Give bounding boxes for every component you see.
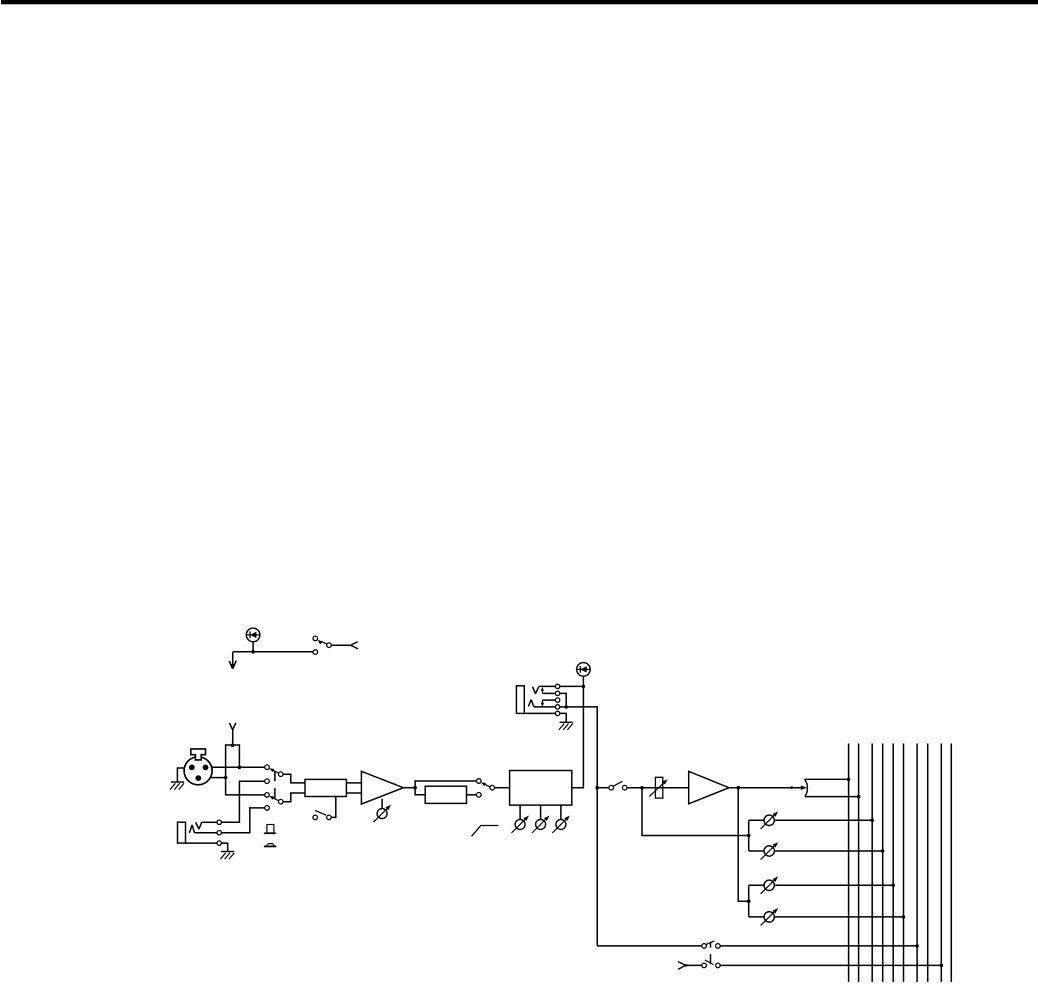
switch S2 contact 2 (line tip) <box>265 779 270 784</box>
wire pre-fader aux feed <box>642 788 749 836</box>
wire to direct out switch <box>597 945 702 947</box>
op-amp U2 mic preamp <box>361 771 403 804</box>
pushbutton cap (pressed) <box>264 844 276 847</box>
switch gang link <box>710 942 712 965</box>
node to bus 9 <box>940 964 944 968</box>
wire <box>748 820 750 851</box>
wire <box>560 805 562 819</box>
wire sleeve <box>524 713 566 722</box>
wire bypass <box>415 781 476 788</box>
wire <box>381 799 383 809</box>
switch S2 contact 3 (mic cold) <box>265 793 270 798</box>
switch S2 wiper 1 <box>269 768 279 773</box>
bus line 3 <box>871 744 873 983</box>
wire send line <box>539 685 584 687</box>
connector fork external input <box>678 962 687 970</box>
potentiometer VR9 aux 3 <box>761 877 778 894</box>
switch S4 pole <box>490 785 495 790</box>
node phantom-led junction <box>251 650 255 654</box>
block U1 input stage <box>305 779 346 796</box>
symbol V phantom supply <box>229 723 236 730</box>
bus line 6 <box>903 744 905 983</box>
arrow into pan <box>801 785 807 790</box>
terminal insert 1 <box>555 684 559 688</box>
wire <box>233 651 313 653</box>
potentiometer VR7 aux 1 <box>761 812 778 829</box>
wire <box>403 787 415 789</box>
node aux feed 2 <box>747 899 751 903</box>
wire <box>720 964 941 966</box>
switch S2 pole 1 <box>279 772 284 777</box>
block U3 high-pass filter <box>425 786 466 803</box>
wire EQ output <box>572 676 584 788</box>
terminal sleeve <box>217 841 221 845</box>
wire <box>748 885 750 917</box>
pan pot VR6 <box>805 779 859 796</box>
node pan L to bus 1 <box>847 778 851 782</box>
bus line 9 <box>940 744 942 983</box>
switch S3 (below input stage) <box>313 810 331 819</box>
wire pin3 cold <box>210 777 225 779</box>
arrow to phantom supply V <box>229 652 236 670</box>
switch S2 contact 4 (line ring) <box>265 806 270 811</box>
node return normal <box>564 705 568 709</box>
wire <box>542 693 566 707</box>
contact spring A (ring) <box>189 825 194 833</box>
switch S2 contact 1 (mic hot) <box>265 765 270 770</box>
switch S2 gang link <box>274 771 276 798</box>
LED D2 signal indicator <box>577 663 591 677</box>
wire pole2 to preamp <box>283 793 305 802</box>
resistor block R48 phantom feed <box>226 745 240 768</box>
bus line 10 <box>950 744 952 983</box>
switch S6 direct out <box>702 941 720 948</box>
bus line 2 <box>858 744 860 983</box>
terminal insert 4 <box>555 705 559 709</box>
switch S5 channel on <box>609 781 627 790</box>
wire <box>467 794 477 796</box>
switch S7 external to bus <box>702 960 720 968</box>
node aux3 to bus 5 <box>891 884 895 888</box>
ground at insert jack <box>559 722 573 730</box>
arrow normal down <box>541 700 544 707</box>
terminal insert 2 <box>555 691 559 695</box>
contact spring V (tip) <box>196 822 202 829</box>
wire <box>627 787 655 789</box>
wire ring line <box>195 808 265 833</box>
wire post-fader aux feed <box>738 788 749 902</box>
switch S4 wiper <box>481 783 490 787</box>
block U4 equalizer <box>510 771 572 806</box>
node pan R to bus 2 <box>857 795 861 799</box>
node pan feed <box>790 786 793 789</box>
wire aux1 line <box>749 819 873 821</box>
ground chassis at XLR <box>170 782 184 790</box>
node aux4 to bus 6 <box>902 915 906 919</box>
terminal insert sleeve <box>555 711 559 715</box>
fader VR5 channel level <box>649 777 667 798</box>
wire pole1 to preamp <box>283 774 305 783</box>
potentiometer VR4 EQ high <box>552 816 569 833</box>
op-amp U5 post fader amp <box>689 771 729 804</box>
top border bar <box>1 0 1038 4</box>
bus line 5 <box>892 744 894 983</box>
bus line 4 <box>882 744 884 983</box>
wire <box>495 787 510 789</box>
connector J3 insert jack body <box>516 686 524 714</box>
symbol high-pass response curve <box>472 826 499 837</box>
wire <box>542 699 555 701</box>
node phantom-box top <box>231 744 235 748</box>
potentiometer VR1 gain <box>374 805 391 822</box>
wire aux3 line <box>749 884 894 886</box>
wire cold feed <box>226 768 265 795</box>
wire <box>331 797 336 818</box>
switch S2 wiper 2 <box>269 796 279 801</box>
wire tip line <box>202 781 265 822</box>
switch S2 pole 2 <box>279 799 284 804</box>
node aux1 to bus 3 <box>870 819 874 823</box>
potentiometer VR2 EQ low <box>512 816 529 833</box>
terminal insert 3 <box>555 698 559 702</box>
node box-to-hot <box>238 765 242 769</box>
wire through fader <box>655 787 688 789</box>
pushbutton cap (released) <box>264 825 276 834</box>
wire to filter <box>415 788 425 795</box>
node post-fader tap <box>736 786 740 790</box>
contact spring V insert <box>533 687 539 694</box>
wire <box>519 805 521 819</box>
wire return line <box>534 707 597 946</box>
wire sleeve line <box>186 843 228 851</box>
wire <box>729 787 801 789</box>
potentiometer VR8 aux 2 <box>761 842 778 859</box>
node preamp out <box>413 786 417 790</box>
connector J2 line input jack body <box>178 822 186 843</box>
potentiometer VR10 aux 4 <box>761 908 778 925</box>
wire <box>177 768 184 782</box>
connector fork +48V source <box>351 642 358 649</box>
wire <box>232 730 234 745</box>
node pre-fader tap <box>640 786 644 790</box>
contact spring A insert <box>528 700 534 707</box>
node to bus 7 <box>915 944 919 948</box>
node box-to-cold <box>224 776 228 780</box>
LED D1 phantom indicator <box>246 628 260 642</box>
wire <box>346 792 361 794</box>
wire <box>346 782 361 784</box>
terminal ring <box>217 831 221 835</box>
wire pin2 hot <box>212 766 265 768</box>
wire <box>252 642 254 652</box>
switch S4 contact b <box>477 793 482 798</box>
wire <box>540 805 542 819</box>
wire <box>597 787 609 789</box>
ground at line jack <box>220 852 234 860</box>
node aux2 to bus 4 <box>881 849 885 853</box>
bus line 1 <box>848 744 850 983</box>
switch S1 phantom on/off <box>313 636 351 654</box>
bus line 7 <box>916 744 918 983</box>
node aux feed 1 <box>747 834 751 838</box>
wire aux4 line <box>749 916 904 918</box>
wire <box>720 945 917 947</box>
node insert return <box>595 786 599 790</box>
terminal tip <box>217 820 221 824</box>
connector J1 XLR mic input <box>184 749 212 785</box>
switch S4 contact a <box>477 779 482 784</box>
wire aux2 line <box>749 850 883 852</box>
node insert send tap <box>582 685 586 689</box>
potentiometer VR3 EQ mid <box>532 816 549 833</box>
bus line 8 <box>927 744 929 983</box>
arrow normal up <box>541 687 544 694</box>
wire <box>686 964 702 966</box>
